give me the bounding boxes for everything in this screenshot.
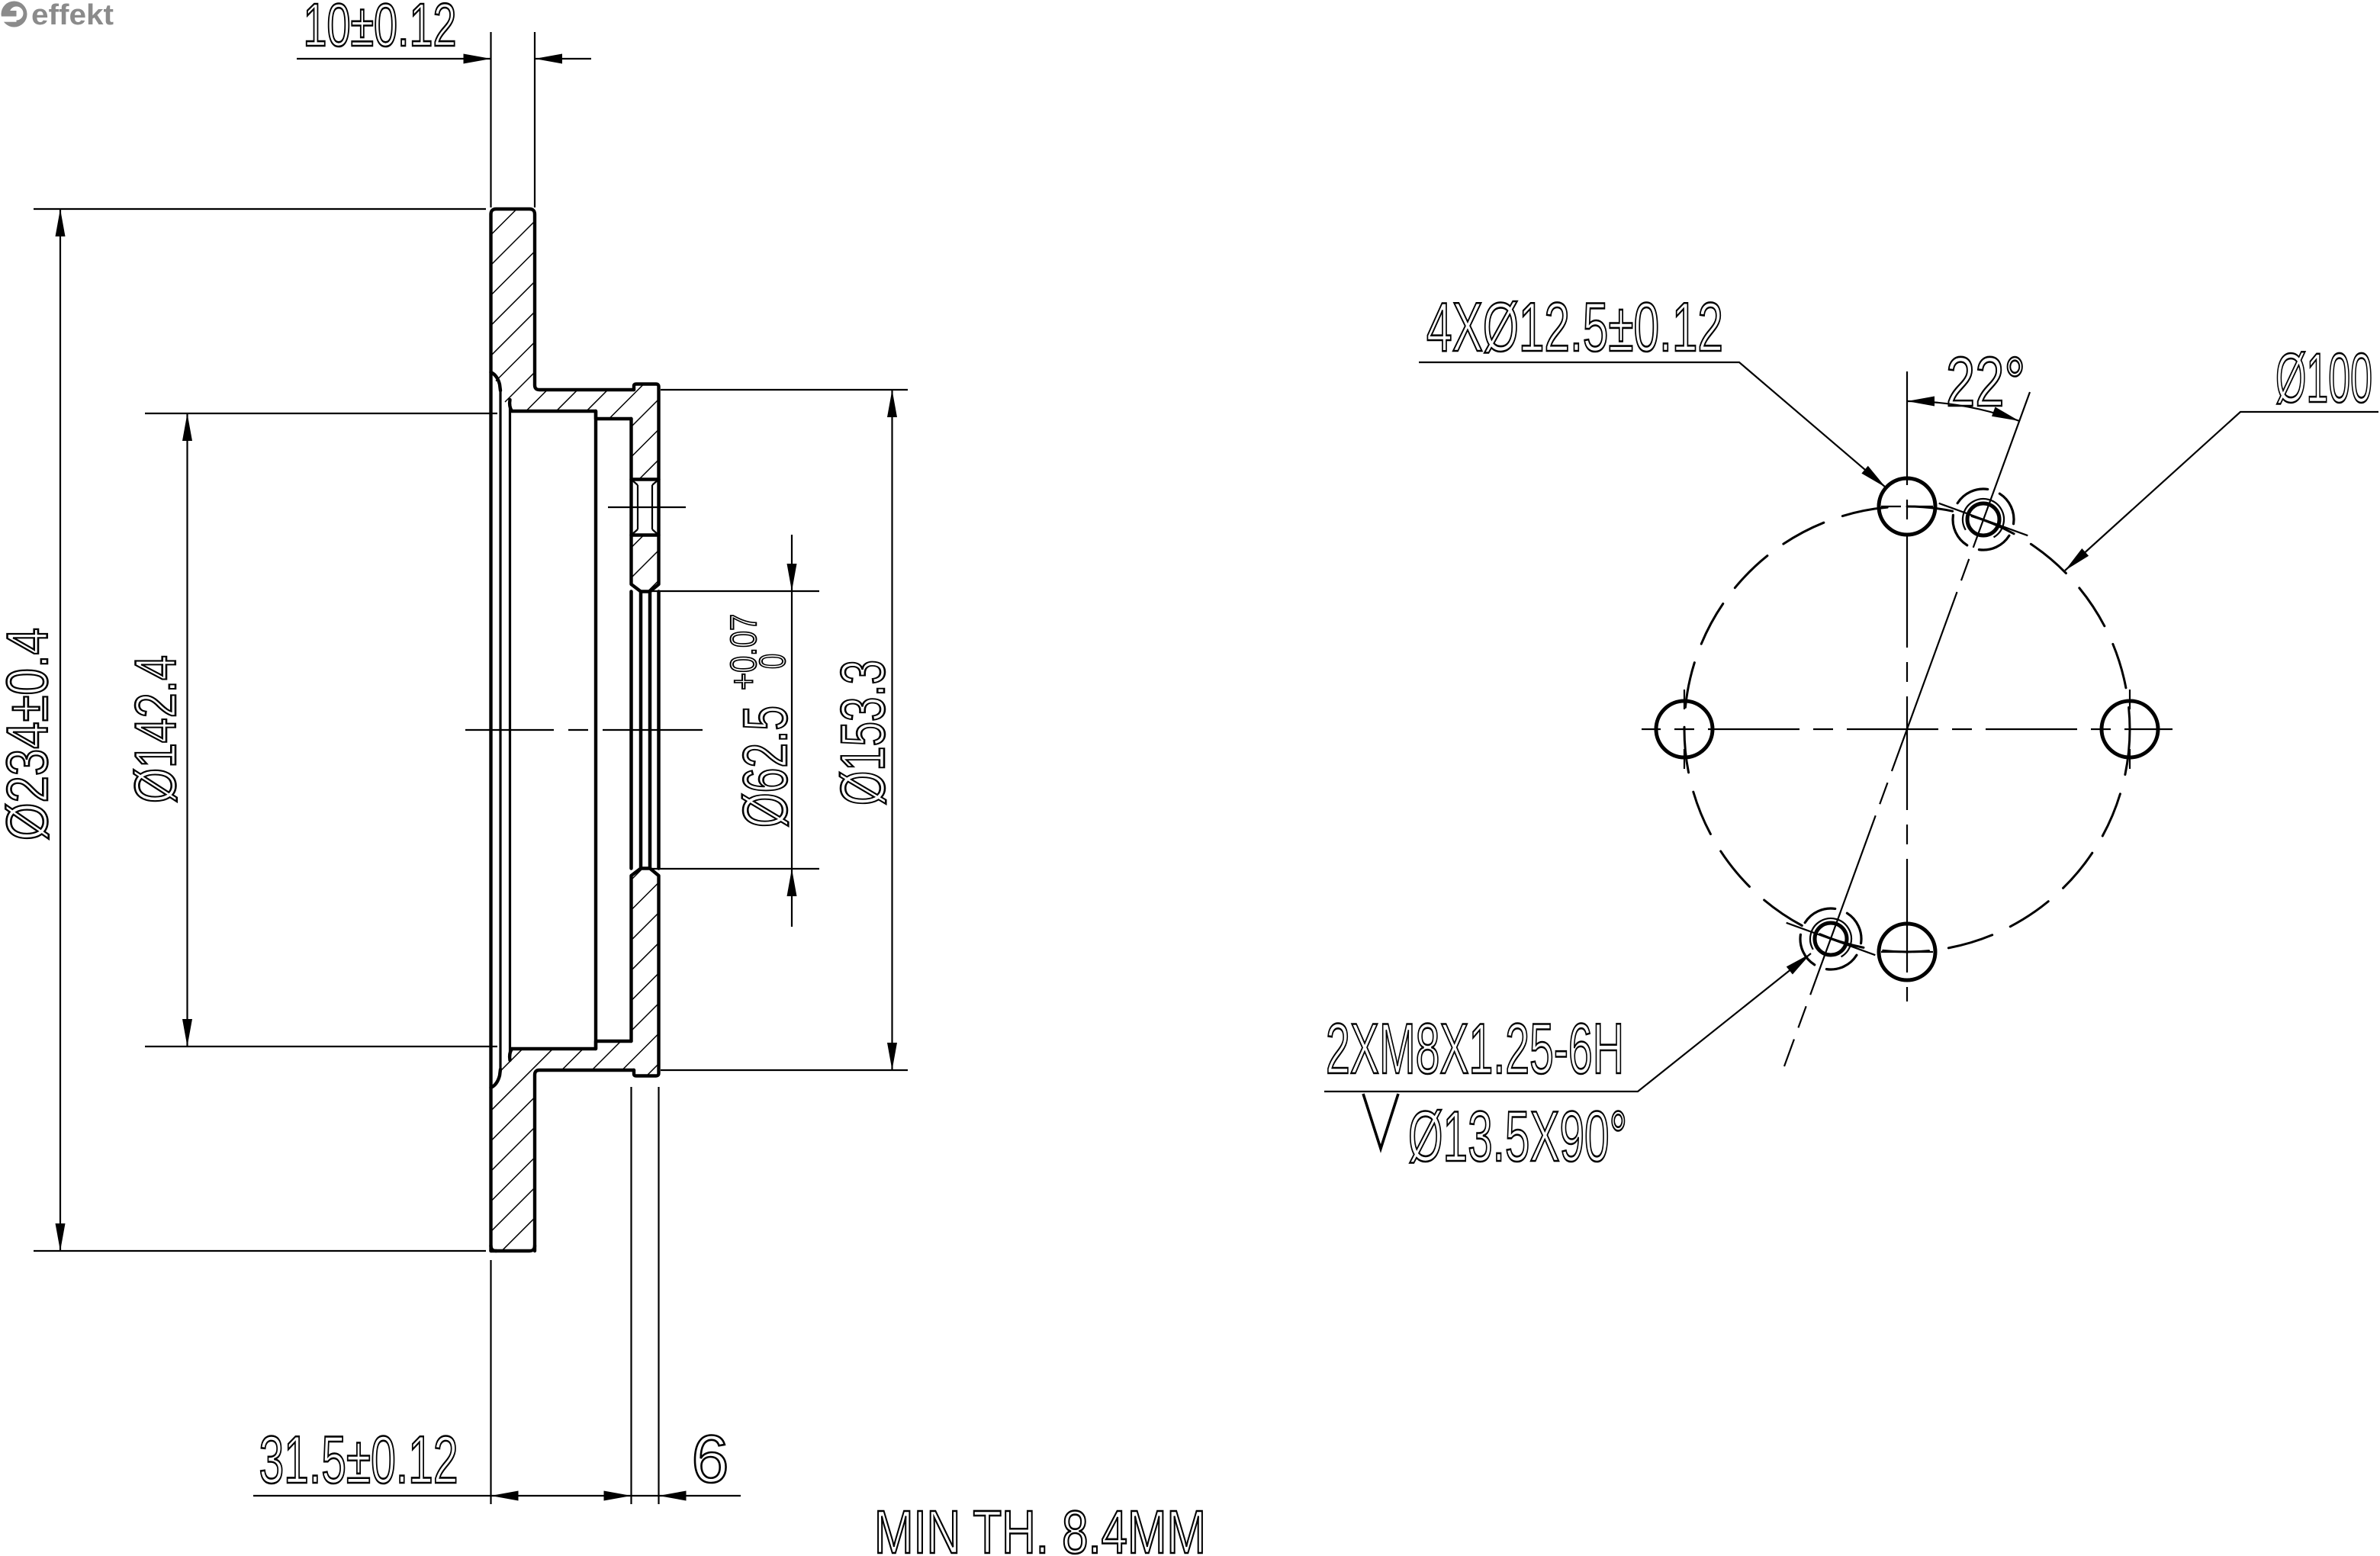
wire: flange left face lower	[632, 869, 642, 1042]
svg-text:Ø153.3: Ø153.3	[828, 660, 898, 805]
svg-text:+0.07: +0.07	[724, 614, 764, 690]
wire: flange left face upper	[632, 419, 642, 592]
effekt logo	[0, 0, 114, 31]
svg-text:2XM8X1.25-6H: 2XM8X1.25-6H	[1326, 1008, 1624, 1088]
node: bolt hole centerline section	[608, 506, 686, 508]
dimension Ø234±0.4	[34, 209, 486, 1251]
wire: bolt hole top edge	[632, 477, 659, 481]
wire: bore edge top	[641, 590, 650, 593]
wire: groove left fillet upper	[491, 372, 501, 391]
svg-text:Ø100: Ø100	[2275, 339, 2372, 417]
hole: M8 top-right	[1939, 477, 2028, 561]
wire: groove right arc lower	[510, 1049, 512, 1060]
hatch flange between bolt hole and bore (upper)	[632, 535, 659, 592]
svg-text:31.5±0.12: 31.5±0.12	[259, 1422, 458, 1497]
svg-text:22°: 22°	[1946, 343, 2025, 421]
wire: bolt circle Ø100 dashed	[1684, 506, 2130, 952]
node: 22 deg diagonal centerline	[1784, 392, 2030, 1066]
wire: lip step upper	[634, 384, 659, 592]
wire: disc bottom edge	[491, 1246, 535, 1251]
svg-text:effekt: effekt	[31, 0, 114, 31]
label countersink Ø13.5X90°	[1363, 1094, 1398, 1149]
svg-text:4XØ12.5±0.12: 4XØ12.5±0.12	[1426, 289, 1723, 366]
dimension Ø62.5 +0.07/0	[651, 591, 819, 869]
svg-text:Ø62.5: Ø62.5	[731, 706, 800, 828]
hole: M8 bottom-left	[1787, 897, 1876, 981]
node: vertical centerline	[1906, 371, 1908, 1001]
hatch disc+hat lower section	[491, 869, 659, 1252]
svg-text:Ø13.5X90°: Ø13.5X90°	[1408, 1096, 1627, 1176]
wire: flange faces through bore	[632, 592, 659, 869]
wire: bolt hole bottom edge	[632, 533, 659, 536]
wire: disc outline upper	[491, 209, 635, 1251]
wire: groove right arc upper	[510, 400, 512, 411]
wire: hat band top edge lower	[512, 1041, 632, 1049]
dimension Ø142.4	[145, 413, 497, 1046]
svg-text:Ø234±0.4: Ø234±0.4	[0, 628, 60, 841]
hole: bolt hole right	[2102, 701, 2158, 757]
node: horizontal centerline	[1642, 728, 2173, 730]
wire: bolt hole chamfers	[632, 480, 659, 535]
dimension 10±0.12	[491, 32, 535, 207]
hole: bolt hole bottom	[1879, 924, 1935, 980]
wire: disc right face lower	[535, 1070, 634, 1251]
svg-text:MIN TH. 8.4MM: MIN TH. 8.4MM	[874, 1498, 1206, 1556]
hole: bolt hole top	[1879, 478, 1935, 535]
svg-text:6: 6	[692, 1421, 729, 1497]
wire: bolt hole wall right	[651, 485, 653, 529]
wire: groove left line	[499, 389, 501, 1071]
wire: lip step lower	[634, 869, 659, 1076]
wire: bolt hole wall left	[637, 485, 638, 529]
svg-text:10±0.12: 10±0.12	[304, 0, 457, 59]
dimension 22 deg arc	[1907, 401, 2019, 421]
node: centerline left view	[465, 729, 703, 731]
dimension Ø153.3	[661, 390, 908, 1070]
svg-text:0: 0	[753, 654, 793, 669]
hatch disc+hat upper section	[491, 209, 659, 480]
hole: bolt hole left	[1656, 701, 1713, 757]
wire: bore silhouette lines	[641, 592, 650, 869]
wire: hat band bottom edge upper	[512, 411, 632, 419]
wire: bore edge bottom	[641, 866, 650, 870]
svg-text:Ø142.4: Ø142.4	[124, 655, 188, 803]
wire: hat cup inner wall	[594, 411, 597, 1049]
wire: groove left fillet lower	[491, 1069, 501, 1088]
dimension 31.5±0.12 and 6	[491, 1087, 659, 1504]
wire: groove right line	[509, 404, 511, 1056]
